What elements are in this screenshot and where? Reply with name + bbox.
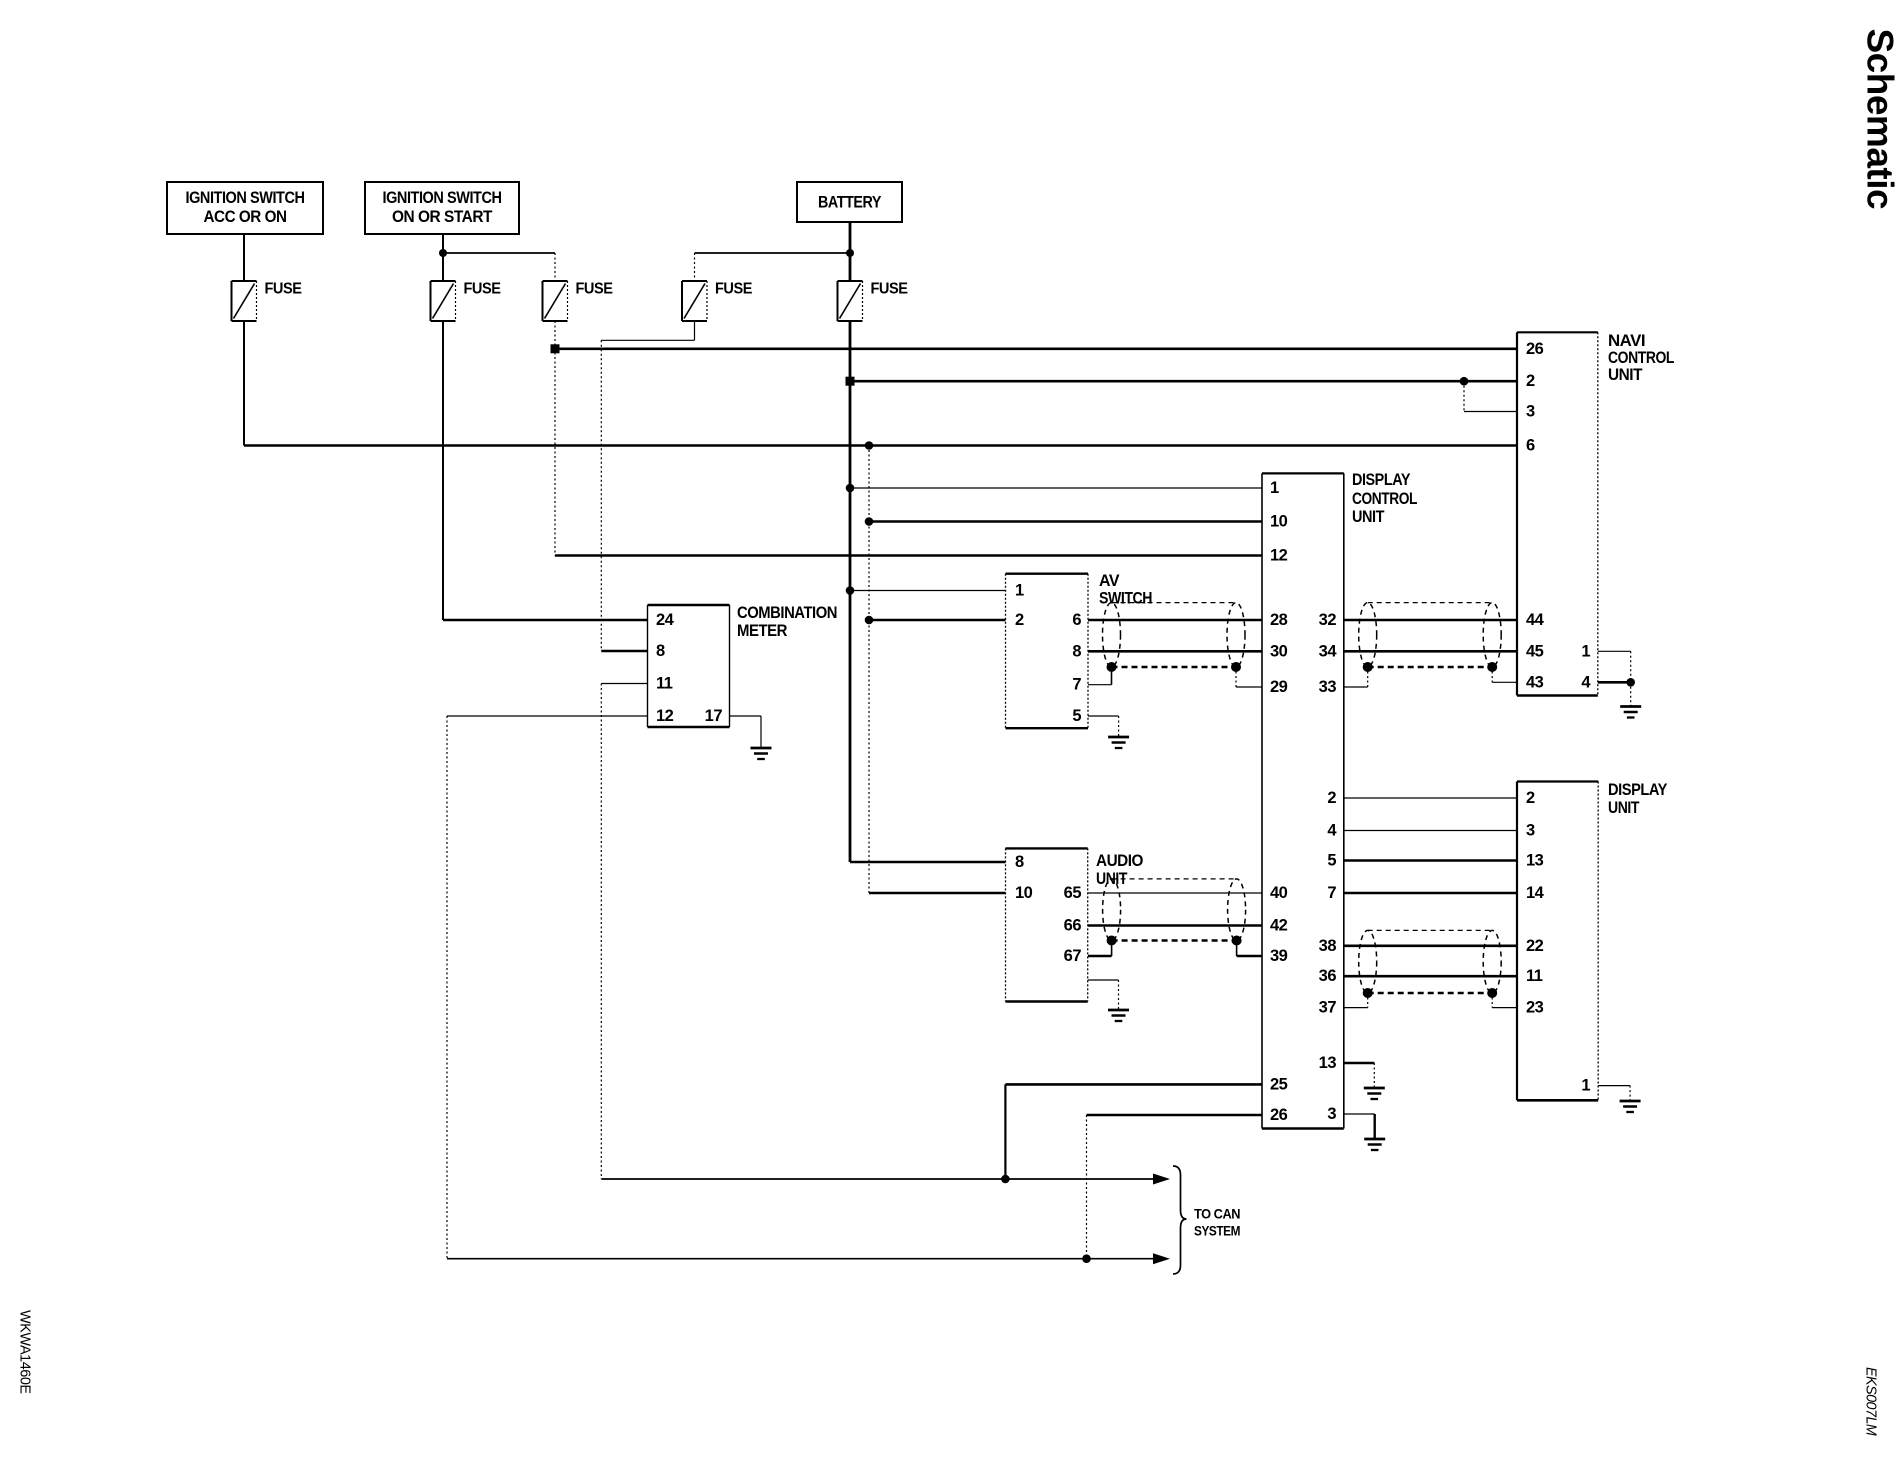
svg-text:COMBINATION: COMBINATION [737,604,837,622]
svg-text:12: 12 [656,707,674,725]
svg-text:7: 7 [1072,676,1081,694]
svg-text:29: 29 [1270,678,1288,696]
svg-text:METER: METER [737,622,788,640]
svg-text:3: 3 [1327,1105,1336,1123]
svg-text:IGNITION SWITCH: IGNITION SWITCH [186,189,305,207]
svg-text:34: 34 [1319,642,1338,660]
svg-text:26: 26 [1270,1106,1288,1124]
svg-text:3: 3 [1526,822,1535,840]
svg-text:38: 38 [1319,937,1337,955]
svg-text:2: 2 [1015,611,1024,629]
svg-text:25: 25 [1270,1075,1288,1093]
svg-text:39: 39 [1270,947,1288,965]
svg-text:FUSE: FUSE [464,281,502,298]
svg-text:37: 37 [1319,999,1337,1017]
svg-text:5: 5 [1327,852,1336,870]
svg-text:2: 2 [1327,789,1336,807]
svg-text:44: 44 [1526,611,1545,629]
svg-text:5: 5 [1072,707,1081,725]
svg-text:8: 8 [656,642,665,660]
svg-text:SYSTEM: SYSTEM [1194,1224,1240,1239]
svg-text:DISPLAY: DISPLAY [1352,471,1410,489]
svg-text:FUSE: FUSE [871,281,909,298]
svg-text:10: 10 [1270,513,1288,531]
svg-text:10: 10 [1015,884,1033,902]
svg-text:11: 11 [1526,967,1543,985]
svg-text:AUDIO: AUDIO [1096,852,1144,870]
svg-text:2: 2 [1526,372,1535,390]
svg-text:SWITCH: SWITCH [1099,590,1152,608]
svg-text:1: 1 [1581,642,1590,660]
svg-text:17: 17 [705,707,723,725]
svg-text:22: 22 [1526,937,1544,955]
svg-text:3: 3 [1526,403,1535,421]
svg-text:WKWA1460E: WKWA1460E [17,1310,33,1394]
svg-text:43: 43 [1526,673,1544,691]
svg-text:30: 30 [1270,642,1288,660]
svg-text:65: 65 [1064,884,1082,902]
svg-text:CONTROL: CONTROL [1608,349,1674,367]
svg-text:6: 6 [1072,611,1081,629]
svg-text:6: 6 [1526,437,1535,455]
svg-text:DISPLAY: DISPLAY [1608,781,1667,799]
svg-text:UNIT: UNIT [1608,799,1639,817]
svg-text:13: 13 [1526,852,1544,870]
svg-text:11: 11 [656,675,673,693]
svg-text:40: 40 [1270,884,1288,902]
svg-text:IGNITION SWITCH: IGNITION SWITCH [383,189,502,207]
svg-text:1: 1 [1581,1077,1590,1095]
svg-text:4: 4 [1327,822,1337,840]
svg-text:23: 23 [1526,999,1544,1017]
svg-text:CONTROL: CONTROL [1352,490,1417,508]
svg-text:AV: AV [1099,572,1119,590]
svg-text:UNIT: UNIT [1608,366,1642,384]
svg-text:24: 24 [656,611,675,629]
svg-text:36: 36 [1319,967,1337,985]
svg-text:42: 42 [1270,917,1288,935]
svg-text:1: 1 [1270,479,1279,497]
svg-text:4: 4 [1581,673,1591,691]
svg-text:66: 66 [1064,917,1082,935]
svg-text:12: 12 [1270,547,1288,565]
svg-text:TO CAN: TO CAN [1194,1207,1240,1222]
svg-text:ACC OR ON: ACC OR ON [204,208,287,226]
svg-text:FUSE: FUSE [576,281,614,298]
svg-text:28: 28 [1270,611,1288,629]
svg-text:FUSE: FUSE [715,281,753,298]
svg-text:67: 67 [1064,947,1082,965]
svg-text:14: 14 [1526,884,1545,902]
svg-text:8: 8 [1015,853,1024,871]
svg-text:ON OR START: ON OR START [392,208,492,226]
svg-text:EKS007LM: EKS007LM [1863,1367,1879,1436]
svg-text:Schematic: Schematic [1860,29,1898,210]
svg-text:BATTERY: BATTERY [818,194,881,212]
svg-text:26: 26 [1526,340,1544,358]
svg-text:45: 45 [1526,642,1544,660]
svg-text:33: 33 [1319,678,1337,696]
svg-text:13: 13 [1319,1054,1337,1072]
svg-text:2: 2 [1526,789,1535,807]
svg-text:NAVI: NAVI [1608,332,1645,350]
svg-text:7: 7 [1327,884,1336,902]
svg-text:32: 32 [1319,611,1337,629]
svg-text:1: 1 [1015,582,1024,600]
svg-text:FUSE: FUSE [265,281,303,298]
svg-text:8: 8 [1072,642,1081,660]
svg-text:UNIT: UNIT [1352,508,1384,526]
